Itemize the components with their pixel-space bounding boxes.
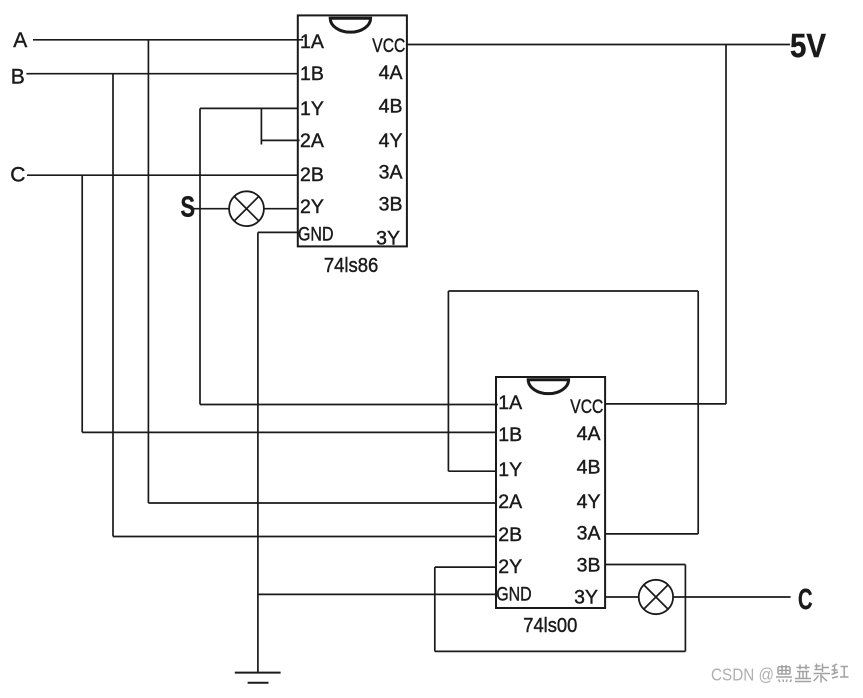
- wire U2 1Y loop vertical up: [447, 291, 449, 471]
- wire into U2 pin 3A: [605, 533, 698, 535]
- wire into U1 pin 2A: [261, 139, 299, 141]
- svg-text:4Y: 4Y: [577, 491, 601, 513]
- svg-text:VCC: VCC: [570, 396, 603, 418]
- wire U2 1Y loop top horizontal: [448, 290, 698, 292]
- wire U2 3Y to lamp DS2 to node C: [605, 596, 790, 598]
- svg-text:CSDN @: CSDN @: [711, 665, 774, 685]
- svg-text:4A: 4A: [379, 62, 403, 84]
- svg-text:4B: 4B: [379, 96, 403, 118]
- wire into U2 pin 2B: [113, 536, 496, 538]
- ground: [235, 673, 281, 683]
- wire ground vertical: [257, 232, 259, 672]
- IC U2 notch: [528, 380, 568, 394]
- svg-text:2A: 2A: [498, 491, 522, 513]
- svg-text:5V: 5V: [790, 27, 826, 64]
- IC U2 74ls00 body: [496, 377, 605, 608]
- wire B branch vertical to U2 2B: [112, 74, 114, 537]
- wire into U2 pin 2A: [148, 502, 496, 504]
- wire U2 GND to ground vertical: [258, 593, 496, 595]
- wire into U2 VCC: [605, 403, 726, 405]
- svg-text:3B: 3B: [577, 555, 601, 577]
- svg-text:4A: 4A: [577, 423, 601, 445]
- svg-text:1Y: 1Y: [300, 98, 324, 120]
- wire U2 2Y loop bottom horizontal: [435, 650, 686, 652]
- wire C to U1 pin 2B: [27, 174, 298, 176]
- svg-text:3Y: 3Y: [376, 227, 400, 249]
- svg-text:1B: 1B: [498, 424, 522, 446]
- svg-text:GND: GND: [496, 584, 532, 606]
- wire U2 1Y output stub: [448, 470, 496, 472]
- svg-text:4B: 4B: [577, 457, 601, 479]
- svg-text:4Y: 4Y: [379, 130, 403, 152]
- svg-text:2B: 2B: [498, 524, 522, 546]
- wire U1 GND stub: [258, 231, 301, 233]
- svg-text:2Y: 2Y: [498, 556, 522, 578]
- svg-text:GND: GND: [298, 223, 334, 245]
- svg-text:1B: 1B: [300, 63, 324, 85]
- svg-text:1Y: 1Y: [498, 459, 522, 481]
- wire C branch vertical to U2 1B: [81, 175, 83, 432]
- lamp DS1: [229, 191, 264, 226]
- svg-text:1A: 1A: [300, 31, 324, 53]
- wire into U2 pin 1B: [82, 431, 496, 433]
- svg-text:S: S: [181, 192, 196, 224]
- wire S to lamp DS1 to U1 pin 2Y: [193, 208, 298, 210]
- watermark CJK glyphs: [776, 664, 849, 683]
- svg-text:74ls00: 74ls00: [523, 615, 577, 637]
- wire into U2 pin 3B: [605, 564, 685, 566]
- wire A to U1 pin 1A: [33, 39, 303, 41]
- svg-text:2Y: 2Y: [300, 196, 324, 218]
- svg-text:3B: 3B: [379, 194, 403, 216]
- wire U2 loop vertical down to 3A: [697, 291, 699, 534]
- svg-text:A: A: [13, 29, 27, 52]
- wire U1 VCC to 5V: [407, 44, 790, 46]
- IC U1 74ls86 body: [298, 15, 407, 246]
- svg-text:74ls86: 74ls86: [324, 255, 379, 277]
- wire 5V branch vertical to U2 VCC: [725, 45, 727, 404]
- svg-text:2B: 2B: [300, 164, 324, 186]
- wire B to U1 pin 1B: [26, 73, 297, 75]
- svg-text:C: C: [798, 584, 813, 616]
- wire U2 2Y output stub: [435, 566, 496, 568]
- svg-text:C: C: [10, 163, 25, 186]
- wire U2 2Y loop vertical down: [434, 567, 436, 651]
- wire U1 1Y output: [200, 107, 298, 109]
- wire U1 1Y vertical down to U2 1A: [199, 108, 201, 404]
- wire feedback 1Y to 2A vertical: [260, 108, 262, 144]
- wire U2 loop vertical up to 3B: [684, 565, 686, 652]
- svg-text:B: B: [11, 66, 25, 89]
- svg-text:1A: 1A: [498, 392, 522, 414]
- wire A branch vertical to U2 2A: [147, 40, 149, 503]
- svg-text:3A: 3A: [577, 522, 601, 544]
- svg-text:3A: 3A: [379, 161, 403, 183]
- lamp DS2: [639, 580, 673, 614]
- wire into U2 pin 1A: [200, 404, 498, 406]
- IC U1 notch: [330, 18, 370, 32]
- svg-text:3Y: 3Y: [574, 586, 598, 608]
- svg-text:2A: 2A: [300, 130, 324, 152]
- svg-text:VCC: VCC: [372, 35, 405, 57]
